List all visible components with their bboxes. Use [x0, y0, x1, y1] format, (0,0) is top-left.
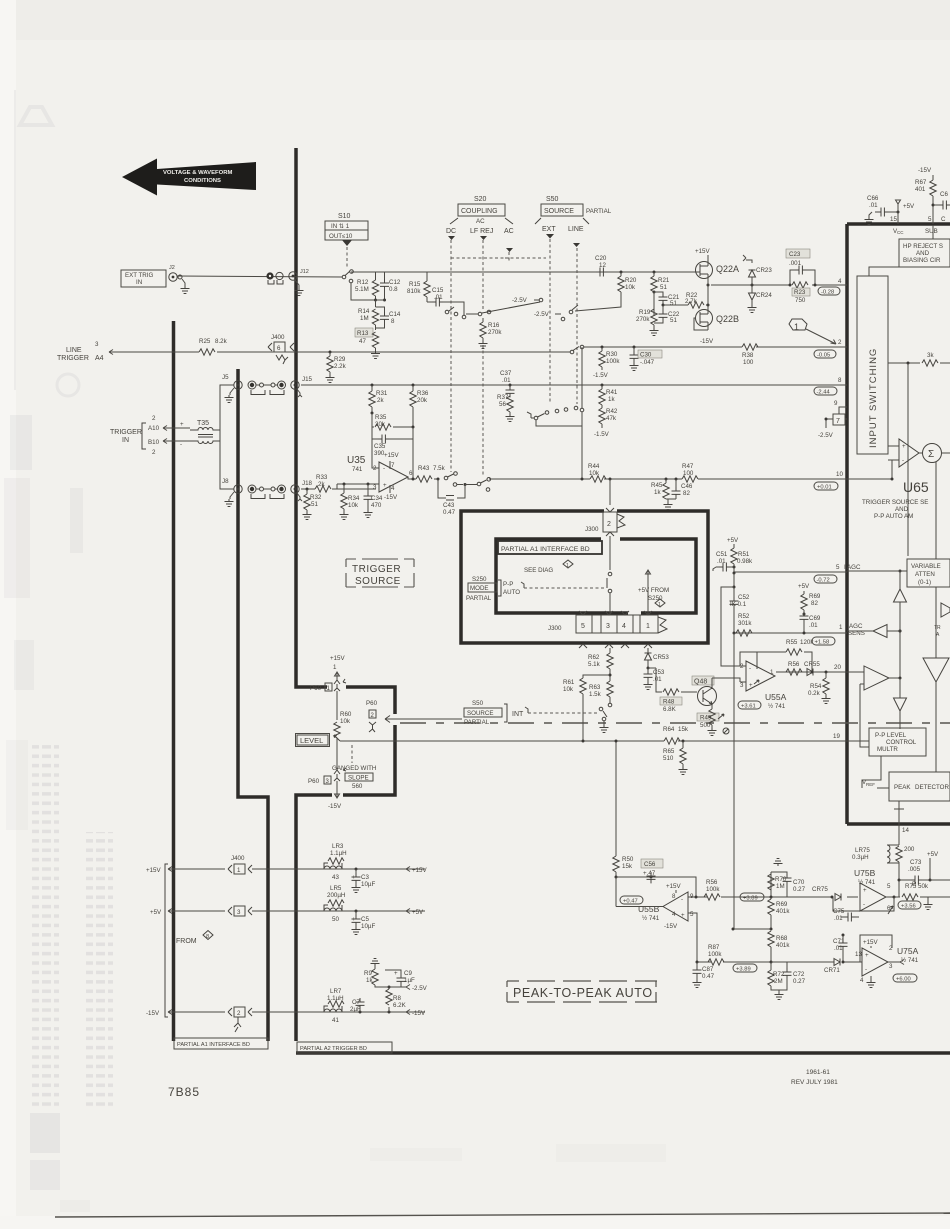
svg-text:R14: R14 — [358, 308, 370, 315]
U75B feedback loop — [833, 897, 894, 911]
inductor LR3 1.1uH — [324, 843, 347, 881]
resistor R63 1.5k — [589, 681, 613, 703]
svg-text:-0.28: -0.28 — [821, 290, 834, 296]
svg-text:R65: R65 — [663, 748, 675, 755]
R73 50k at U75B + input — [912, 881, 917, 888]
svg-text:-15V: -15V — [146, 1010, 160, 1017]
diode CR71 — [824, 959, 840, 975]
lower deck contacts — [453, 478, 490, 492]
svg-text:2: 2 — [152, 449, 156, 456]
pin 9 / 7 block — [818, 400, 847, 439]
capacitor C52 0.1 — [730, 587, 750, 633]
resistor R62 5.1k — [588, 653, 613, 681]
svg-text:+: + — [383, 482, 387, 489]
oval +3.89 lower — [733, 964, 757, 973]
Q22 output wire to pin 4 — [711, 284, 847, 286]
svg-text:8: 8 — [838, 377, 842, 384]
oval +6.00 — [893, 974, 917, 983]
svg-text:S20: S20 — [474, 196, 487, 203]
C66 +5V decoupling — [865, 195, 916, 225]
svg-text:0.2k: 0.2k — [808, 690, 821, 697]
svg-text:1: 1 — [658, 602, 661, 608]
R70 1M / C70 0.27 — [768, 859, 806, 899]
ext trig in label box — [121, 270, 166, 287]
svg-text:R31: R31 — [376, 390, 388, 397]
capacitor C30 .047 (highlighted) — [630, 346, 663, 371]
U55A opamp — [740, 652, 787, 710]
svg-text:8.2k: 8.2k — [215, 338, 228, 345]
svg-text:S50: S50 — [472, 700, 484, 707]
connector J2 — [169, 265, 182, 281]
svg-text:270k: 270k — [488, 329, 502, 336]
svg-text:R63: R63 — [589, 684, 601, 691]
R55 120k feedback — [740, 639, 814, 672]
svg-text:5.1k: 5.1k — [588, 661, 601, 668]
capacitor C7 2uF — [350, 998, 365, 1014]
svg-text:+: + — [394, 970, 398, 977]
resistor R19 270k — [636, 292, 659, 336]
svg-text:TRIGGER SOURCE SE: TRIGGER SOURCE SE — [862, 499, 928, 506]
svg-text:+3.89: +3.89 — [736, 967, 751, 973]
capacitor C37 .01 — [500, 370, 515, 397]
S50 SOURCE switch box — [535, 196, 612, 224]
U65 outline — [847, 224, 950, 824]
svg-text:GANGED WITH: GANGED WITH — [332, 765, 376, 772]
HP REJECT AND BIASING box — [899, 225, 950, 267]
-15V below — [328, 790, 342, 810]
oval +3.89 upper — [740, 893, 764, 902]
svg-text:R48: R48 — [663, 699, 675, 706]
svg-text:4: 4 — [391, 485, 395, 492]
svg-text:7: 7 — [391, 462, 395, 469]
svg-text:+15V: +15V — [384, 452, 399, 459]
bleedthrough ghosts (reverse side of page) — [4, 90, 666, 1212]
svg-text:15k: 15k — [622, 863, 633, 870]
P60 pin 2 from right — [366, 700, 378, 732]
svg-text:1: 1 — [333, 664, 337, 671]
svg-text:1M: 1M — [776, 883, 785, 890]
svg-text:2.7k: 2.7k — [685, 298, 698, 305]
svg-text:+5V: +5V — [727, 537, 739, 544]
U75B opamp — [854, 868, 896, 912]
svg-text:51: 51 — [660, 284, 667, 291]
svg-text:R55: R55 — [786, 639, 798, 646]
svg-text:6: 6 — [409, 470, 413, 477]
svg-text:5: 5 — [690, 911, 694, 918]
svg-text:+1.58: +1.58 — [815, 640, 830, 646]
svg-text:CR75: CR75 — [812, 886, 828, 893]
svg-text:R38: R38 — [742, 352, 754, 359]
bottom page edge line — [55, 1213, 950, 1217]
svg-text:200: 200 — [904, 846, 915, 853]
+15V rail — [146, 855, 427, 874]
svg-text:R69: R69 — [809, 593, 821, 600]
svg-text:CR24: CR24 — [756, 292, 772, 299]
svg-text:PARTIAL: PARTIAL — [466, 595, 492, 602]
svg-text:R21: R21 — [658, 277, 670, 284]
svg-text:R29: R29 — [334, 356, 346, 363]
svg-text:R72: R72 — [773, 971, 785, 978]
C75 .01 — [833, 908, 859, 922]
svg-text:10k: 10k — [340, 718, 351, 725]
svg-text:47: 47 — [359, 338, 366, 345]
svg-text:401k: 401k — [776, 908, 790, 915]
svg-text:+6.00: +6.00 — [896, 977, 911, 983]
svg-text:510: 510 — [663, 755, 674, 762]
R75 50k — [888, 883, 950, 914]
svg-text:-1.5V: -1.5V — [594, 431, 610, 438]
sigma summing node — [923, 444, 950, 560]
partial A2 trigger bd outline — [296, 148, 395, 1041]
svg-text:401: 401 — [915, 186, 926, 193]
svg-text:A10: A10 — [148, 425, 160, 432]
capacitor C5 10uF — [352, 910, 376, 935]
svg-text:270k: 270k — [636, 316, 650, 323]
A1 interface inner box (middle) — [461, 511, 708, 643]
svg-text:15k: 15k — [678, 726, 689, 733]
svg-text:120k: 120k — [800, 639, 814, 646]
svg-text:FROM: FROM — [176, 938, 197, 945]
dashed control lines S50 — [549, 239, 551, 404]
svg-text:.001: .001 — [789, 260, 802, 267]
svg-text:R15: R15 — [409, 281, 421, 288]
svg-text:C51: C51 — [716, 551, 728, 558]
svg-text:-: - — [180, 441, 182, 448]
svg-text:C70: C70 — [793, 879, 805, 886]
svg-text:6.2K: 6.2K — [393, 1002, 407, 1009]
capacitor C15 .01 — [427, 287, 464, 315]
svg-text:HP REJECT S: HP REJECT S — [903, 243, 943, 250]
svg-text:+5V: +5V — [903, 203, 915, 210]
svg-text:-: - — [865, 966, 867, 973]
-2.5V feed and switch — [466, 297, 543, 316]
connector J5 — [222, 374, 242, 403]
resistor R15 810k — [407, 272, 430, 302]
U35 input wires — [372, 413, 379, 468]
svg-text:-.047: -.047 — [640, 359, 655, 366]
svg-text:U75B: U75B — [854, 868, 876, 878]
resistor R8 6.2K — [386, 987, 407, 1014]
S50 switch cluster — [527, 347, 584, 481]
resistor R61 10k — [563, 675, 610, 743]
U35 out to pin 10 wire — [489, 478, 847, 480]
svg-text:R37: R37 — [497, 394, 509, 401]
svg-text:2: 2 — [607, 521, 611, 528]
svg-text:.01: .01 — [869, 202, 878, 209]
U55B output wire + oval — [616, 877, 663, 907]
svg-text:R42: R42 — [606, 408, 618, 415]
position tick marks S50 — [546, 234, 580, 247]
line trigger label — [57, 341, 115, 362]
svg-text:2k: 2k — [377, 397, 384, 404]
svg-text:AC: AC — [504, 228, 514, 235]
svg-text:R23: R23 — [794, 289, 806, 296]
J15 to pin 8 wire — [301, 384, 847, 386]
svg-text:1M: 1M — [360, 315, 369, 322]
svg-text:C72: C72 — [793, 971, 805, 978]
svg-text:C7: C7 — [352, 999, 360, 1006]
svg-text:J8: J8 — [222, 478, 229, 485]
svg-text:SOURCE: SOURCE — [355, 576, 401, 587]
svg-text:-2.5V: -2.5V — [818, 432, 834, 439]
svg-text:100k: 100k — [708, 951, 722, 958]
svg-text:2µF: 2µF — [350, 1006, 361, 1013]
svg-text:C56: C56 — [644, 861, 656, 868]
pin 8 label — [814, 377, 842, 396]
svg-text:R16: R16 — [488, 322, 500, 329]
svg-text:8: 8 — [672, 893, 676, 900]
svg-text:2: 2 — [838, 339, 842, 346]
svg-text:PARTIAL: PARTIAL — [464, 719, 490, 726]
connector J300 pin 2 top — [585, 508, 625, 536]
U75A feedback loop — [860, 935, 892, 962]
svg-text:1: 1 — [770, 669, 774, 676]
U35 op-amp — [347, 452, 413, 501]
svg-text:CR71: CR71 — [824, 967, 840, 974]
3k resistor right — [888, 352, 950, 556]
pin 5 SUB — [925, 216, 946, 235]
pin 10 entry into sigma — [847, 460, 892, 479]
svg-text:PARTIAL A1 INTERFACE BD: PARTIAL A1 INTERFACE BD — [177, 1042, 250, 1048]
svg-text:3: 3 — [373, 484, 377, 491]
capacitor C35 390 — [372, 427, 413, 457]
coupling position labels — [446, 228, 514, 235]
svg-text:C37: C37 — [500, 370, 512, 377]
svg-text:3: 3 — [740, 682, 744, 689]
svg-text:51: 51 — [670, 317, 677, 324]
svg-text:750: 750 — [795, 297, 806, 304]
resistor R35 20k — [371, 412, 415, 431]
svg-text:J18: J18 — [302, 480, 313, 487]
svg-text:6.8K: 6.8K — [663, 706, 677, 713]
svg-text:ATTEN: ATTEN — [915, 571, 935, 578]
svg-text:DC: DC — [446, 228, 456, 235]
svg-text:1k: 1k — [654, 489, 661, 496]
svg-text:U75A: U75A — [897, 946, 919, 956]
U55B R56 wire — [696, 896, 858, 898]
resistor R31 2k — [369, 384, 388, 414]
svg-text:R50: R50 — [622, 856, 634, 863]
resistor R43 7.5k — [416, 465, 446, 482]
svg-text:C73: C73 — [910, 859, 922, 866]
svg-text:I: I — [844, 564, 846, 571]
svg-text:TR: TR — [934, 625, 941, 631]
partial A2 label box — [297, 1042, 392, 1053]
svg-text:+5V: +5V — [150, 909, 162, 916]
pin 1 AGC wire — [734, 632, 847, 634]
capacitor C14 8 — [376, 307, 401, 328]
resistor R9 1k — [364, 959, 391, 989]
svg-text:C15: C15 — [432, 287, 444, 294]
svg-text:R67: R67 — [915, 179, 927, 186]
svg-text:U65: U65 — [903, 479, 929, 495]
position tick marks — [448, 236, 513, 252]
resistor R21 51 — [651, 271, 670, 317]
svg-text:S10: S10 — [338, 213, 351, 220]
svg-text:CONTROL: CONTROL — [886, 739, 917, 746]
svg-text:U35: U35 — [347, 455, 366, 466]
svg-text:10µF: 10µF — [361, 923, 375, 930]
R56 100k label — [704, 879, 720, 900]
svg-text:-15V: -15V — [918, 167, 932, 174]
svg-text:-15V: -15V — [664, 923, 678, 930]
connector J400 pin 6 — [268, 334, 294, 364]
-15V rail — [146, 1007, 426, 1032]
svg-text:REV JULY 1981: REV JULY 1981 — [791, 1079, 838, 1086]
svg-text:C75: C75 — [833, 908, 845, 915]
svg-text:PEAK: PEAK — [894, 784, 911, 791]
R72 2M / C72 0.27 — [768, 962, 806, 1000]
svg-text:+: + — [352, 874, 356, 881]
connector J15 — [291, 376, 313, 397]
svg-text:T35: T35 — [197, 420, 209, 427]
svg-text:+5V: +5V — [927, 851, 939, 858]
svg-text:R56: R56 — [788, 661, 800, 668]
svg-text:P60: P60 — [310, 685, 322, 692]
svg-text:+: + — [865, 952, 869, 959]
svg-text:10µF: 10µF — [361, 881, 375, 888]
svg-text:R43: R43 — [418, 465, 430, 472]
R54 0.2k — [808, 672, 831, 704]
AGC buffer triangle — [847, 625, 902, 638]
svg-text:0.98k: 0.98k — [737, 558, 753, 565]
svg-text:-2.5V: -2.5V — [412, 985, 428, 992]
C56 .47 highlighted — [615, 859, 697, 889]
PEAK-TO-PEAK AUTO dashed box — [507, 981, 657, 1002]
svg-text:VARIABLE: VARIABLE — [911, 563, 941, 570]
svg-text:3: 3 — [606, 623, 610, 630]
svg-text:CR23: CR23 — [756, 267, 772, 274]
svg-text:R44: R44 — [588, 463, 600, 470]
svg-text:LINE: LINE — [66, 347, 82, 354]
svg-text:P60: P60 — [366, 700, 378, 707]
svg-text:PARTIAL A2 TRIGGER BD: PARTIAL A2 TRIGGER BD — [300, 1046, 367, 1052]
svg-text:R8: R8 — [393, 995, 401, 1002]
svg-text:R: R — [912, 881, 917, 888]
diode CR53 — [645, 648, 670, 670]
resistor R42 47k — [594, 405, 618, 438]
capacitor C46 82 — [672, 478, 693, 500]
svg-text:+: + — [352, 916, 356, 923]
svg-text:C87: C87 — [702, 966, 714, 973]
svg-text:50k: 50k — [918, 883, 929, 890]
svg-text:-: - — [902, 457, 904, 464]
svg-text:+: + — [681, 912, 685, 919]
partial A1 interface bd left strip outline — [172, 321, 176, 1041]
R56 1k + CR55 — [776, 661, 847, 676]
svg-text:MODE: MODE — [470, 585, 489, 592]
capacitor C3 10uF — [352, 868, 376, 893]
coax contacts J8 row — [248, 485, 286, 499]
svg-text:VOLTAGE & WAVEFORM: VOLTAGE & WAVEFORM — [163, 170, 232, 176]
svg-text:R54: R54 — [810, 683, 822, 690]
svg-text:C46: C46 — [681, 483, 693, 490]
S50 line into P60-2 — [385, 716, 462, 723]
svg-text:+3.61: +3.61 — [741, 704, 756, 710]
J300-3 wire down — [609, 648, 611, 653]
svg-text:810k: 810k — [407, 288, 421, 295]
wire J300-2 down to mode switch — [609, 536, 611, 570]
svg-text:R52: R52 — [738, 613, 750, 620]
gnd small right — [924, 897, 933, 910]
transistor Q48 — [692, 676, 717, 709]
svg-text:Q22A: Q22A — [716, 264, 739, 274]
ext -2.5V switch — [534, 305, 578, 321]
C87 0.47 — [693, 961, 715, 988]
svg-text:LR3: LR3 — [332, 843, 344, 850]
svg-text:INT: INT — [512, 711, 524, 718]
svg-text:.005: .005 — [908, 866, 921, 873]
svg-text:R64: R64 — [663, 726, 675, 733]
S10 dashed link — [346, 247, 348, 268]
svg-text:2.2k: 2.2k — [334, 363, 347, 370]
svg-text:SOURCE: SOURCE — [467, 710, 493, 717]
svg-text:+: + — [180, 421, 184, 428]
partial A1 label box — [174, 1038, 268, 1049]
internal amp to P-P — [847, 666, 902, 747]
svg-text:+5V: +5V — [798, 583, 810, 590]
svg-text:5: 5 — [887, 883, 891, 890]
svg-text:C3: C3 — [361, 874, 369, 881]
svg-text:C69: C69 — [809, 615, 821, 622]
svg-text:+: + — [902, 443, 906, 450]
svg-text:5: 5 — [928, 216, 932, 223]
svg-text:PARTIAL: PARTIAL — [586, 208, 612, 215]
+5V drop to J300-1 — [646, 570, 651, 614]
node R12/C12 bottom — [374, 299, 386, 308]
R50 15k — [613, 740, 634, 878]
svg-text:-2.5V: -2.5V — [534, 311, 550, 318]
svg-text:.01: .01 — [717, 558, 726, 565]
svg-text:AGC: AGC — [849, 623, 863, 630]
svg-text:BIASING CIR: BIASING CIR — [903, 257, 941, 264]
svg-text:R60: R60 — [340, 711, 352, 718]
svg-text:0.47: 0.47 — [702, 973, 715, 980]
S250 MODE switch label — [466, 576, 520, 602]
resistor R20 10k — [575, 271, 637, 312]
svg-text:14: 14 — [902, 827, 909, 834]
svg-text:-0.72: -0.72 — [817, 578, 830, 584]
svg-text:-2.5V: -2.5V — [512, 297, 528, 304]
svg-text:OUT≤10: OUT≤10 — [329, 233, 353, 240]
svg-text:P-P LEVEL: P-P LEVEL — [875, 732, 907, 739]
J300 bottom connectors 5 3 4 1 — [576, 611, 667, 648]
svg-text:R51: R51 — [738, 551, 750, 558]
Q48 collector to U55A — [712, 678, 740, 682]
link to U55A pin 2 — [721, 586, 746, 667]
svg-text:1: 1 — [566, 563, 569, 569]
switch S10 contact — [342, 270, 353, 279]
svg-text:P-P AUTO AM: P-P AUTO AM — [874, 513, 913, 520]
svg-text:R41: R41 — [606, 389, 618, 396]
svg-text:10k: 10k — [625, 284, 636, 291]
svg-text:R35: R35 — [375, 414, 387, 421]
svg-text:U55A: U55A — [765, 692, 787, 702]
svg-text:56: 56 — [499, 401, 506, 408]
IAGC junction + column — [847, 570, 907, 590]
big detector triangle — [923, 587, 949, 772]
resistor R12 5.1M — [355, 272, 379, 300]
svg-text:R47: R47 — [682, 463, 694, 470]
svg-text:R33: R33 — [316, 474, 328, 481]
capacitor C69 .01 — [800, 612, 821, 635]
svg-text:½ 741: ½ 741 — [901, 957, 919, 964]
J300-2 drop wire — [609, 478, 612, 506]
svg-text:0.47: 0.47 — [443, 509, 456, 516]
resistor R34 10k — [340, 483, 360, 520]
transformer T35 — [177, 420, 220, 444]
svg-text:C30: C30 — [640, 352, 652, 359]
